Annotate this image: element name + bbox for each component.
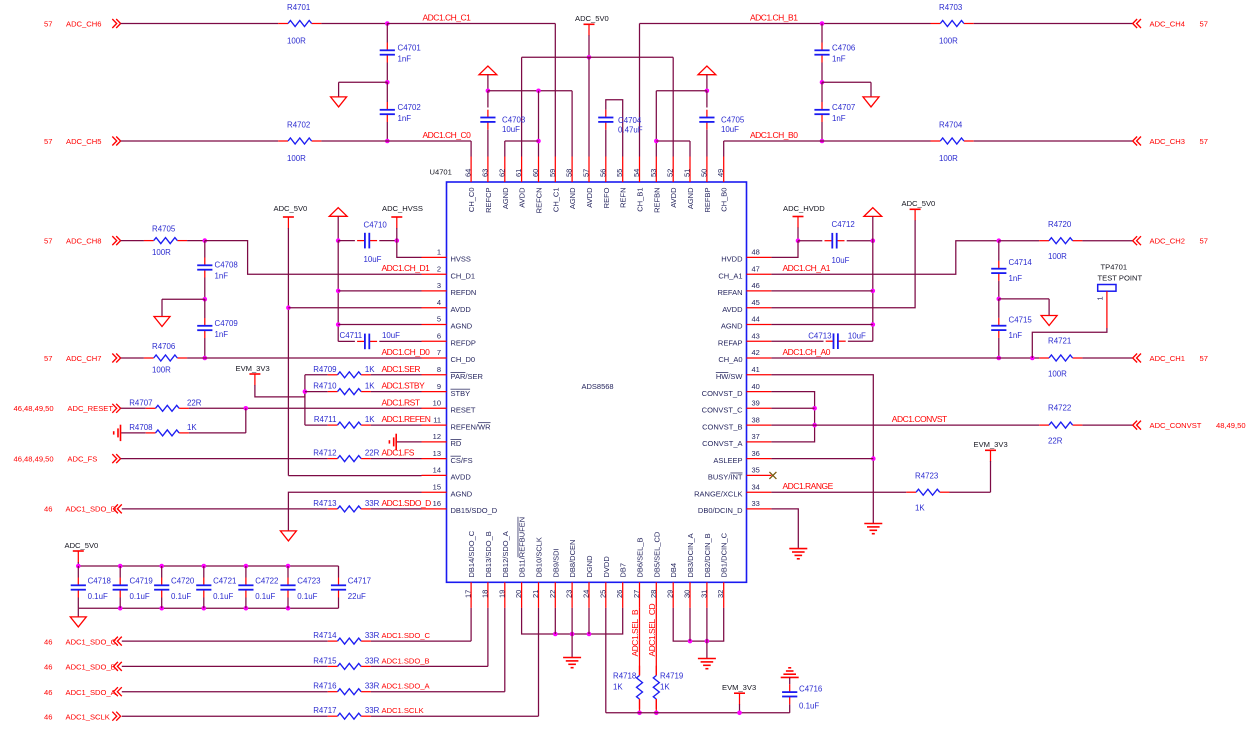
svg-text:44: 44 [752,315,760,324]
svg-text:R4711: R4711 [314,415,337,424]
wire ref-right rail [656,90,707,92]
svg-text:R4712: R4712 [313,449,336,458]
svg-text:ADS8568: ADS8568 [582,382,614,391]
svg-text:1K: 1K [365,415,375,424]
net label ADC1.CH_B0 [750,130,798,140]
wire pin 49 col to R4704 [724,141,931,157]
svg-text:ADC1.CH_D0: ADC1.CH_D0 [382,347,431,357]
svg-text:CS/FS: CS/FS [451,456,473,465]
net label ADC1.RST [382,397,420,407]
svg-text:10uF: 10uF [502,125,520,134]
port ADC_CONVST [1133,421,1246,430]
junction C4702 bottom [385,139,390,144]
wire EVM rail [606,712,790,714]
svg-text:57: 57 [1200,354,1208,363]
svg-text:100R: 100R [1048,369,1067,378]
svg-text:C4714: C4714 [1009,258,1033,267]
svg-text:DB5/SEL_CD: DB5/SEL_CD [652,531,661,577]
ground HW/SW earth [864,524,882,534]
svg-text:R4713: R4713 [313,499,337,508]
junction CONVST_B [812,423,817,428]
svg-text:35: 35 [752,466,760,475]
net label ADC1.CH_D1 [382,263,431,273]
wire pin 42 row [771,357,1039,359]
svg-text:0.1uF: 0.1uF [130,592,150,601]
wire ADC_RESET to R4707 [121,407,146,409]
svg-text:46: 46 [44,688,52,697]
resistor R4719 [653,666,684,709]
svg-text:33R: 33R [365,706,380,715]
wire R4718 to rail [639,699,641,713]
svg-text:12: 12 [433,432,441,441]
wire jog to pin 62 [505,141,539,157]
svg-text:0.1uF: 0.1uF [799,701,819,710]
svg-text:REFO: REFO [602,187,611,208]
svg-text:AVDD: AVDD [451,305,472,314]
wire pin 54 col to R4703 [640,24,931,157]
svg-text:15: 15 [433,482,441,491]
wire bus to R4711 [305,424,328,426]
capacitor C4715 [991,299,1032,358]
svg-text:DB3/DCIN_A: DB3/DCIN_A [686,533,695,577]
svg-text:ADC1.CH_C0: ADC1.CH_C0 [423,130,472,140]
svg-text:C4704: C4704 [618,116,642,125]
capacitor C4706 [814,24,855,83]
svg-text:22R: 22R [1048,437,1063,446]
svg-text:CONVST_B: CONVST_B [702,422,742,431]
svg-text:100R: 100R [287,154,306,163]
svg-text:1nF: 1nF [215,330,229,339]
svg-text:ADC_5V0: ADC_5V0 [575,14,609,23]
svg-text:REFCN: REFCN [535,188,544,214]
junction AVDD rail [587,55,592,60]
svg-text:0.1uF: 0.1uF [171,592,191,601]
svg-text:10uF: 10uF [832,256,850,265]
svg-text:42: 42 [752,348,760,357]
capacitor C4717 [331,566,371,608]
power ADC_HVSS [382,204,423,229]
junction REFCN jog [536,139,541,144]
svg-text:CH_C0: CH_C0 [467,188,476,213]
svg-text:1: 1 [437,248,441,257]
svg-text:DB9/SDI: DB9/SDI [551,548,560,577]
resistor R4718 [613,666,643,709]
svg-text:DB15/SDO_D: DB15/SDO_D [451,506,498,515]
wire R4714 to pin col [371,608,471,641]
wire ADC1_SCLK to R4717 [122,715,328,717]
IC left pins 1-16 [422,248,498,515]
svg-text:19: 19 [497,590,506,598]
svg-text:100R: 100R [939,154,958,163]
svg-text:26: 26 [615,590,624,598]
svg-text:1K: 1K [915,504,925,513]
wire bus to R4710 [305,391,328,393]
svg-text:ADC1.SDO_A: ADC1.SDO_A [382,682,431,691]
svg-text:10uF: 10uF [848,332,866,341]
ground GND6 [1041,316,1057,326]
power ADC_5V0 right [902,199,936,221]
svg-text:ADC1.CH_B1: ADC1.CH_B1 [750,13,798,23]
wire pin 36 [771,458,873,460]
wire pin 41 to ground [771,375,873,524]
svg-text:ASLEEP: ASLEEP [713,456,742,465]
net label ADC1.CH_A0 [783,347,831,357]
wire R4715 to pin col [371,608,488,667]
svg-text:DB12/SDO_A: DB12/SDO_A [501,531,510,577]
svg-text:CH_B1: CH_B1 [636,188,645,212]
wire R4720 to port [1082,240,1132,242]
svg-text:R4702: R4702 [287,121,310,130]
svg-text:1K: 1K [660,683,670,692]
ground GND2 [863,97,879,107]
resistor R4710 [313,382,375,395]
power EVM_3V3 bottom [722,683,756,713]
net label ADC1.SDO_D [382,498,432,508]
wire R4710 to pin 9 [371,391,422,393]
resistor R4706 [144,342,187,375]
port ADC1_SDO_C [44,637,122,647]
port ADC1_SDO_B [44,662,122,672]
wire pin 44 to bus [771,324,872,326]
svg-text:ADC_RESET: ADC_RESET [67,404,113,413]
op-amp U1 IC U4701 ADS8568 outline [430,168,747,583]
wire DCIN to ground [706,641,708,658]
svg-text:AGND: AGND [721,322,743,331]
junction C4714/C4715 [997,297,1002,302]
ground stub left of C4708 [162,299,205,316]
svg-text:C4702: C4702 [398,103,421,112]
wire HVDD to pin 48 [771,241,798,258]
svg-text:61: 61 [514,169,523,177]
svg-text:C4701: C4701 [398,44,421,53]
capacitor C4718 [71,566,112,608]
ground GND1 [331,97,347,107]
svg-text:1K: 1K [187,423,197,432]
wire pin 15 to ground [288,492,421,531]
junction AVDD pin 4 [286,305,291,310]
port ADC_CH6 [44,19,121,28]
port ADC_CH1 [1133,354,1208,363]
wire rail to pin 57 [588,57,590,156]
svg-text:0.1uF: 0.1uF [297,592,317,601]
junction C4706 top [820,21,825,26]
svg-text:39: 39 [752,399,760,408]
svg-text:AVDD: AVDD [451,473,472,482]
svg-text:ADC1_SDO_C: ADC1_SDO_C [66,637,117,646]
svg-text:DB13/SDO_B: DB13/SDO_B [484,531,493,577]
resistor R4701 [278,3,321,45]
svg-text:25: 25 [598,590,607,598]
svg-text:16: 16 [433,499,441,508]
svg-text:41: 41 [752,365,760,374]
svg-text:ADC_CH3: ADC_CH3 [1150,137,1185,146]
svg-text:CONVST_D: CONVST_D [702,389,743,398]
wire ADC_CH7 to R4706 [121,357,144,359]
capacitor C4709 [197,299,238,358]
junction ref-left REFCN col [536,89,541,94]
svg-text:R4723: R4723 [915,472,939,481]
svg-text:AVDD: AVDD [585,187,594,208]
svg-text:R4715: R4715 [313,656,337,665]
svg-text:1nF: 1nF [398,55,412,64]
junction HVDD node [796,238,801,243]
wire bank top rail [78,565,338,567]
svg-text:1nF: 1nF [832,55,846,64]
svg-text:ADC1.CH_C1: ADC1.CH_C1 [423,13,472,23]
junction C4710 left [336,238,341,243]
svg-text:C4720: C4720 [171,577,195,586]
svg-text:34: 34 [752,482,760,491]
junction REFAN [871,289,876,294]
port ADC1_SCLK [44,712,121,722]
svg-text:C4713: C4713 [808,332,832,341]
svg-text:ADC1.SEL_CD: ADC1.SEL_CD [647,604,657,657]
svg-text:R4706: R4706 [152,342,176,351]
svg-text:57: 57 [44,236,52,245]
svg-text:AGND: AGND [568,187,577,209]
wire to pin 5 [338,324,421,326]
resistor R4708 [129,423,197,436]
svg-text:ADC_CH8: ADC_CH8 [66,236,101,245]
svg-text:AVDD: AVDD [669,187,678,208]
wire pull-up bus [304,375,306,425]
wire R4705 to node [187,240,205,242]
power ADC_HVDD [783,204,825,228]
svg-text:DGND: DGND [585,555,594,578]
svg-text:EVM_3V3: EVM_3V3 [974,440,1008,449]
wire jog to pin 51 [656,141,690,157]
svg-text:R4717: R4717 [313,706,336,715]
svg-text:C4710: C4710 [364,221,388,230]
svg-text:DB8/DCEN: DB8/DCEN [568,540,577,578]
wire bus to R4709 [305,374,328,376]
svg-text:1nF: 1nF [215,272,229,281]
svg-text:56: 56 [598,169,607,177]
svg-text:R4703: R4703 [939,3,963,12]
net label ADC1.CH_D0 [382,347,431,357]
capacitor C4705 [699,91,745,157]
wire DVDD column [605,608,607,713]
svg-text:5: 5 [437,315,441,324]
svg-text:AGND: AGND [451,489,473,498]
resistor R4711 [314,415,375,428]
wire R4701 to node [321,23,387,25]
wire node to pin 59 col [387,24,555,157]
svg-text:64: 64 [464,169,473,177]
svg-text:RANGE/XCLK: RANGE/XCLK [694,489,742,498]
ground DCIN earth [698,659,716,669]
svg-text:ADC1.SCLK: ADC1.SCLK [382,706,424,715]
svg-text:ADC_5V0: ADC_5V0 [65,541,99,550]
svg-text:C4722: C4722 [255,577,278,586]
svg-text:30: 30 [683,590,692,598]
wire to pin 12 [397,441,422,443]
svg-text:TEST POINT: TEST POINT [1098,274,1143,283]
svg-text:1K: 1K [365,382,375,391]
capacitor C4701 [380,24,421,83]
wire to pin 4 [288,307,421,309]
svg-text:33: 33 [752,499,760,508]
power ADC_5V0 bank [65,541,99,566]
port ADC1_SDO_A [44,687,122,697]
svg-text:ADC_CONVST: ADC_CONVST [1150,421,1202,430]
svg-text:22R: 22R [365,449,380,458]
port ADC_CH7 [44,354,121,363]
svg-text:C4719: C4719 [130,577,154,586]
power ADC_5V0 top [575,14,609,36]
svg-text:28: 28 [649,590,658,598]
junction AGND pin5 [336,322,341,327]
wire R4722 to port [1082,424,1132,426]
IC top pins 64-49 [464,157,729,214]
svg-text:46: 46 [44,505,52,514]
svg-text:EVM_3V3: EVM_3V3 [722,683,756,692]
wire DB6/SEL_B pulldown [639,608,641,676]
svg-text:R4709: R4709 [313,365,337,374]
svg-text:10uF: 10uF [721,125,739,134]
svg-text:AVDD: AVDD [518,187,527,208]
wire ADC1_SDO_C to R4714 [122,640,328,642]
net label ADC1.FS [382,448,415,458]
wire rail to pin 52 [672,57,674,156]
svg-text:46,48,49,50: 46,48,49,50 [14,454,54,463]
power arrow left ref [479,66,497,91]
junction EVM_3V3 rail [737,711,742,716]
svg-text:C4717: C4717 [348,577,371,586]
svg-text:REFDN: REFDN [451,288,477,297]
svg-text:R4719: R4719 [660,672,684,681]
svg-text:48: 48 [752,248,760,257]
wire DCIN rail [673,608,724,641]
port ADC_CH3 [1133,137,1208,146]
resistor R4721 [1039,337,1082,379]
wire REFCN col [538,91,540,157]
svg-text:R4705: R4705 [152,225,176,234]
svg-text:ADC1.SEL_B: ADC1.SEL_B [630,609,640,656]
resistor R4717 [313,706,379,719]
svg-text:ADC_HVDD: ADC_HVDD [783,204,825,213]
resistor R4720 [1039,220,1082,261]
svg-text:ADC_CH6: ADC_CH6 [66,19,101,28]
svg-text:ADC1.SDO_B: ADC1.SDO_B [382,656,430,665]
svg-text:REFBP: REFBP [703,188,712,213]
svg-text:29: 29 [666,590,675,598]
svg-text:CH_D0: CH_D0 [451,355,476,364]
capacitor C4707 [814,82,855,141]
junction R4719 rail [654,711,659,716]
svg-text:AGND: AGND [501,187,510,209]
power EVM_3V3 left [236,364,270,386]
wire R4703 to port [974,23,1133,25]
svg-text:REFEN/WR: REFEN/WR [451,422,492,431]
junction C4709 bottom [203,356,208,361]
svg-text:58: 58 [565,169,574,177]
svg-text:ADC1.FS: ADC1.FS [382,448,415,458]
svg-text:AVDD: AVDD [722,305,743,314]
ground stub left of C4701 [339,82,388,97]
svg-text:C4716: C4716 [799,684,823,693]
svg-text:57: 57 [44,354,52,363]
svg-text:ADC1.REFEN: ADC1.REFEN [382,414,431,424]
junction C4708 top [203,238,208,243]
no-ERC marker R4708 [114,425,121,441]
svg-text:R4722: R4722 [1048,404,1071,413]
svg-text:HW/SW: HW/SW [716,372,744,381]
net label ADC1.SDO_C [382,631,431,640]
wire pin 34 to R4723 [771,491,906,493]
svg-text:60: 60 [531,169,540,177]
svg-text:DB1/DCIN_C: DB1/DCIN_C [720,532,729,577]
svg-text:R4720: R4720 [1048,220,1072,229]
junction ref-left node [486,89,491,94]
svg-text:ADC1.CH_B0: ADC1.CH_B0 [750,130,798,140]
svg-text:DB0/DCIN_D: DB0/DCIN_D [698,506,743,515]
wire ADC_CH6 to R4701 [121,23,279,25]
power ADC_5V0 left [274,204,308,229]
svg-text:100R: 100R [152,248,171,257]
wire ADC_5V0 to pin 45 [771,220,915,307]
resistor R4715 [313,656,379,669]
svg-text:ADC1.CH_A1: ADC1.CH_A1 [783,263,831,273]
resistor R4722 [1039,404,1082,446]
net label ADC1.SEL_CD [647,604,657,657]
wire to R4708 [121,432,146,434]
resistor R4705 [144,225,187,258]
svg-text:46: 46 [752,281,760,290]
wire R4716 to pin col [371,608,505,692]
svg-text:CH_A1: CH_A1 [718,271,742,280]
svg-text:R4710: R4710 [313,382,337,391]
svg-text:54: 54 [632,169,641,177]
capacitor C4710 [338,221,397,265]
net label ADC1.SEL_B [630,609,640,656]
IC right pins 48-33 [694,248,771,515]
wire C4710 to pin 1 [397,241,422,258]
ground GND4 [280,531,296,541]
port ADC1_SDO_D [44,504,122,513]
capacitor C4722 [238,566,278,608]
wire ADC_HVDD to node [797,228,799,241]
svg-text:57: 57 [44,137,52,146]
svg-text:33R: 33R [365,631,380,640]
svg-text:R4721: R4721 [1048,337,1071,346]
svg-text:ADC_FS: ADC_FS [67,454,97,463]
svg-text:9: 9 [437,382,441,391]
wire ADC1_SDO_B to R4715 [122,665,328,667]
resistor R4702 [278,121,321,163]
svg-text:DB7: DB7 [619,563,628,578]
wire pin 47 to ADC_CH2 row [771,241,998,275]
port ADC_FS [14,454,121,463]
resistor R4707 [129,398,202,411]
svg-text:HVSS: HVSS [451,255,471,264]
svg-text:46,48,49,50: 46,48,49,50 [14,404,54,413]
net label ADC1.RANGE [783,481,834,491]
svg-text:ADC_5V0: ADC_5V0 [902,199,936,208]
svg-text:DVDD: DVDD [602,556,611,578]
svg-text:R4704: R4704 [939,121,963,130]
svg-text:R4701: R4701 [287,3,310,12]
svg-text:RESET: RESET [451,406,476,415]
resistor R4709 [313,365,375,378]
svg-text:17: 17 [464,590,473,598]
svg-text:ADC1.SER: ADC1.SER [382,364,421,374]
wire REFBN col [655,91,657,157]
resistor R4723 [906,472,949,513]
net label ADC1.CH_A1 [783,263,831,273]
wire AGND bus [337,241,339,342]
svg-text:0.1uF: 0.1uF [255,592,275,601]
